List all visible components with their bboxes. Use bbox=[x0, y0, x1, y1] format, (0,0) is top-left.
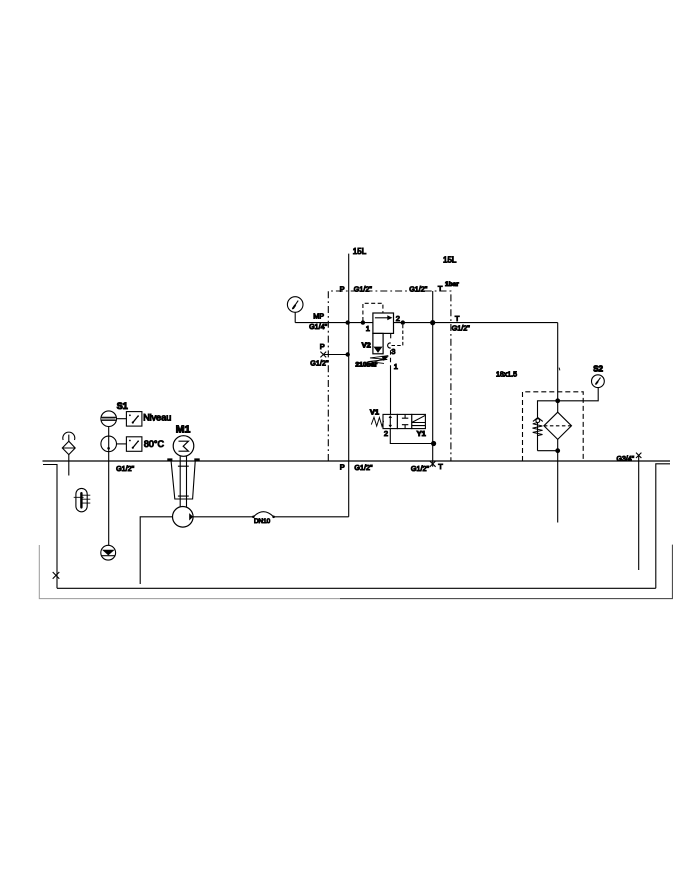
V1 flow path bbox=[389, 417, 391, 427]
svg-text:S2: S2 bbox=[593, 365, 603, 374]
svg-text:G1/2": G1/2" bbox=[354, 463, 373, 472]
filter assembly boundary dashed bbox=[523, 392, 584, 461]
level band bbox=[102, 417, 115, 420]
svg-text:V2: V2 bbox=[362, 341, 371, 350]
svg-text:S1: S1 bbox=[117, 401, 128, 411]
svg-text:G1/2": G1/2" bbox=[116, 464, 135, 473]
V2 adjust arrow bbox=[364, 358, 385, 366]
suction pipe bbox=[140, 517, 172, 584]
node filter inlet bbox=[555, 398, 560, 403]
V2 drain dashed bbox=[392, 325, 403, 346]
svg-text:T: T bbox=[438, 284, 443, 293]
breather filter diamond bbox=[62, 441, 75, 454]
pump flow triangle bbox=[189, 513, 193, 520]
electric motor circle bbox=[173, 436, 194, 457]
svg-text:15L: 15L bbox=[353, 247, 367, 256]
G3/4 port X bbox=[636, 453, 641, 458]
V2 pilot hook bbox=[388, 343, 391, 348]
V1 spring bbox=[371, 417, 383, 426]
manifold block boundary bbox=[328, 291, 451, 461]
svg-text:G1/4": G1/4" bbox=[309, 322, 328, 331]
svg-text:DN10: DN10 bbox=[254, 518, 271, 525]
P riser pipe 15L bbox=[348, 254, 350, 517]
wire V1 to T line bbox=[390, 429, 433, 444]
breather pipe into tank bbox=[68, 455, 70, 476]
wire level to temp bbox=[108, 427, 110, 437]
svg-text:G3/4": G3/4" bbox=[617, 456, 635, 463]
return pipe to filter bbox=[557, 323, 559, 413]
shaft bbox=[180, 456, 186, 506]
svg-text:G1/2": G1/2" bbox=[354, 284, 373, 293]
return pipe into tank bbox=[557, 451, 559, 523]
tank right wall bbox=[656, 464, 670, 589]
main pressure gallery wire bbox=[295, 322, 373, 324]
wire side P port bbox=[323, 354, 347, 356]
svg-text:G1/2": G1/2" bbox=[409, 284, 428, 293]
level switch contact box Niveau bbox=[126, 412, 141, 427]
foot check valve circle bbox=[101, 545, 116, 560]
T line vertical bbox=[432, 291, 434, 467]
bypass to outlet bbox=[538, 450, 558, 452]
svg-text:G1/2": G1/2" bbox=[411, 464, 430, 473]
breather stem bbox=[68, 435, 70, 442]
return pipe into tank right bbox=[638, 455, 640, 570]
svg-text:T: T bbox=[455, 314, 460, 323]
hose tick bbox=[558, 368, 561, 371]
pump circle bbox=[173, 507, 194, 528]
V2 vent stub bbox=[390, 333, 392, 338]
svg-text:G1/2": G1/2" bbox=[310, 359, 329, 368]
wire level to switch box bbox=[117, 418, 127, 420]
drip tray bbox=[39, 545, 340, 599]
S1 pipe down into tank bbox=[108, 452, 110, 550]
svg-text:V1: V1 bbox=[370, 408, 379, 417]
V2 seat triangle bbox=[374, 347, 383, 353]
svg-text:P: P bbox=[320, 342, 325, 351]
wire V2 out to T bbox=[394, 322, 558, 324]
node T junction bbox=[430, 320, 435, 325]
node drain branch bbox=[401, 320, 405, 324]
S2 gauge wire bbox=[558, 388, 599, 401]
svg-text:1bar: 1bar bbox=[445, 281, 459, 288]
svg-text:T: T bbox=[438, 462, 443, 471]
bell housing bbox=[171, 461, 195, 499]
svg-text:MP: MP bbox=[313, 311, 324, 320]
svg-text:P: P bbox=[340, 462, 345, 471]
V2 pilot line dashed bbox=[363, 303, 383, 321]
solenoid Y1 bbox=[412, 414, 426, 428]
temperature sensor circle bbox=[101, 436, 117, 452]
tank wall drain port X bbox=[53, 572, 60, 579]
wire filter to outlet node bbox=[557, 439, 559, 450]
wire hose to P riser bbox=[274, 516, 348, 518]
svg-text:Y1: Y1 bbox=[417, 429, 426, 438]
bypass check ball bbox=[536, 419, 540, 423]
hose DN10 bbox=[252, 516, 255, 519]
svg-text:1: 1 bbox=[366, 324, 370, 333]
bypass check seat bbox=[533, 418, 543, 422]
motor flange feet bbox=[167, 458, 199, 460]
svg-text:M1: M1 bbox=[176, 424, 191, 436]
relief valve V2 body bbox=[373, 313, 394, 333]
pressure gauge MP bbox=[287, 297, 303, 313]
T bottom X plug bbox=[430, 461, 436, 467]
S2 gauge bbox=[592, 375, 605, 388]
level switch circle bbox=[101, 411, 117, 427]
directional valve V1 left position bbox=[383, 414, 397, 428]
svg-text:210bar: 210bar bbox=[355, 362, 377, 369]
svg-text:3: 3 bbox=[391, 347, 395, 356]
temp switch contact box 80C bbox=[126, 437, 141, 452]
V2 flow arrow bbox=[375, 317, 388, 319]
discharge wire to hose bbox=[193, 516, 254, 518]
bypass branch wire bbox=[538, 401, 558, 418]
svg-text:2: 2 bbox=[396, 314, 400, 323]
svg-text:Niveau: Niveau bbox=[143, 412, 171, 422]
side P port X plug bbox=[320, 352, 326, 358]
svg-text:P: P bbox=[340, 284, 345, 293]
bypass spring bbox=[533, 423, 543, 436]
svg-text:2: 2 bbox=[384, 429, 388, 438]
tank bottom bbox=[57, 587, 656, 589]
thermometer capsule bbox=[76, 488, 87, 511]
wire to V1 bbox=[390, 368, 392, 414]
V2 cartridge lower body bbox=[373, 333, 383, 353]
drain wire dashed to V1 bbox=[390, 350, 392, 368]
filter element dashed bbox=[544, 425, 572, 427]
svg-text:1: 1 bbox=[394, 362, 398, 371]
svg-text:G1/2": G1/2" bbox=[452, 324, 471, 333]
filter diamond bbox=[544, 412, 572, 439]
V2 spring bbox=[368, 356, 388, 364]
node P junction bbox=[346, 320, 350, 324]
wire temp to switch box bbox=[117, 443, 127, 445]
directional valve V1 right position bbox=[397, 414, 411, 428]
motor M glyph rotated bbox=[179, 441, 189, 451]
svg-text:15L: 15L bbox=[443, 256, 457, 265]
breather/filler cap arc bbox=[63, 432, 75, 440]
node pilot branch bbox=[361, 320, 365, 324]
svg-text:18x1.5: 18x1.5 bbox=[496, 371, 517, 378]
tank left wall bbox=[43, 465, 57, 589]
couplings bbox=[178, 466, 189, 496]
tank top plate line bbox=[43, 460, 671, 462]
svg-text:80°C: 80°C bbox=[144, 439, 165, 449]
